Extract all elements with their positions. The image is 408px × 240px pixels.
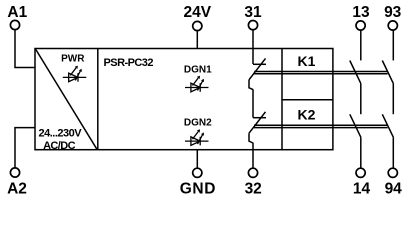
power section divider bbox=[97, 49, 99, 150]
LED DGN1 bbox=[185, 78, 209, 92]
terminal A1 bbox=[10, 20, 19, 29]
wire contact to terminal 94 bbox=[392, 138, 394, 169]
NO contact K2 (13-14) bbox=[350, 114, 361, 137]
wire between contacts 93-94 bbox=[392, 84, 394, 114]
mechanical link K1 (double line) bbox=[254, 72, 387, 74]
wire between NC contacts bbox=[252, 89, 254, 117]
terminal 24V bbox=[193, 21, 202, 30]
wire between contacts 13-14 bbox=[360, 84, 362, 114]
wire A1 to power box bbox=[15, 30, 35, 68]
NC contact K2 (31-32 path lower) bbox=[249, 112, 266, 143]
wire 13 down bbox=[360, 30, 362, 60]
svg-text:31: 31 bbox=[244, 4, 262, 21]
svg-text:94: 94 bbox=[385, 180, 403, 197]
svg-text:K1: K1 bbox=[298, 53, 316, 69]
wire A2 to power box bbox=[15, 128, 35, 168]
LED PWR bbox=[63, 68, 87, 82]
wire 93 down bbox=[392, 30, 394, 60]
terminal 93 bbox=[388, 21, 397, 30]
svg-text:PSR-PC32: PSR-PC32 bbox=[104, 57, 154, 69]
svg-text:DGN1: DGN1 bbox=[184, 65, 212, 76]
svg-text:14: 14 bbox=[353, 180, 371, 197]
svg-text:24...230V: 24...230V bbox=[39, 127, 83, 139]
wire contact to terminal 32 bbox=[252, 143, 254, 168]
terminal 32 bbox=[248, 168, 257, 177]
svg-text:A1: A1 bbox=[7, 4, 27, 21]
terminal 94 bbox=[388, 168, 397, 177]
NC contact K1 (31-32 path upper) bbox=[249, 58, 266, 89]
terminal 13 bbox=[356, 21, 365, 30]
svg-text:32: 32 bbox=[245, 180, 262, 197]
relay section left edge bbox=[281, 49, 283, 150]
svg-text:GND: GND bbox=[180, 180, 216, 197]
svg-text:24V: 24V bbox=[184, 4, 212, 21]
mechanical link K2 (double line) bbox=[254, 125, 388, 127]
svg-text:PWR: PWR bbox=[61, 54, 85, 65]
terminal A2 bbox=[10, 168, 19, 177]
wire contact to terminal 14 bbox=[360, 138, 362, 169]
K1/K2 divider bbox=[282, 99, 333, 101]
wire GND to box bbox=[196, 150, 198, 168]
NO contact K1 (93-94) bbox=[382, 61, 393, 84]
main device box bbox=[35, 49, 333, 150]
power supply diagonal bbox=[36, 49, 97, 149]
svg-text:13: 13 bbox=[352, 4, 370, 21]
svg-text:93: 93 bbox=[384, 4, 402, 21]
terminal 31 bbox=[248, 21, 257, 30]
wire 24V to box bbox=[196, 31, 198, 49]
svg-text:DGN2: DGN2 bbox=[184, 118, 212, 129]
wire 31 down to contact bbox=[252, 30, 254, 64]
svg-text:AC/DC: AC/DC bbox=[43, 140, 75, 152]
NO contact K2 (93-94) bbox=[382, 114, 393, 137]
terminal 14 bbox=[356, 168, 365, 177]
svg-text:K2: K2 bbox=[298, 107, 316, 123]
NO contact K1 (13-14) bbox=[350, 61, 361, 84]
terminal GND bbox=[193, 168, 202, 177]
svg-text:A2: A2 bbox=[7, 180, 27, 197]
LED DGN2 bbox=[185, 132, 209, 146]
